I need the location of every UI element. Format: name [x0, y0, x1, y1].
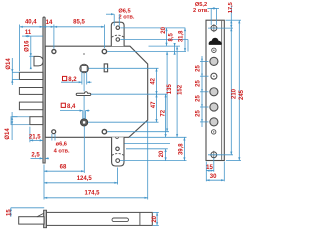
- svg-text:124,5: 124,5: [77, 176, 93, 182]
- svg-text:25: 25: [195, 80, 201, 87]
- svg-text:68: 68: [60, 165, 67, 171]
- bottom tab notch: [115, 137, 118, 138]
- case divider side view: [139, 212, 141, 225]
- 17.5 text leader: [230, 6, 232, 21]
- ext tab hole to 124.5: [117, 168, 119, 185]
- ext 8.2 right: [86, 72, 88, 85]
- leader O6.5 left: [113, 14, 115, 26]
- leader O5.2 right drop: [216, 8, 218, 25]
- top mounting tab: [111, 22, 124, 46]
- svg-text:2 отв.: 2 отв.: [119, 15, 135, 21]
- ext 21.5: [29, 127, 31, 143]
- square follower 8.2: [80, 64, 89, 73]
- dim line 2.5: [31, 157, 49, 159]
- svg-text:210: 210: [232, 88, 238, 99]
- dim line O14 top: [11, 58, 13, 85]
- tick O14 top a: [12, 71, 19, 73]
- lower follower 8.4: [80, 119, 87, 126]
- dim line 30: [206, 179, 224, 181]
- svg-text:Ø14: Ø14: [6, 58, 12, 70]
- dim line 15 side: [10, 208, 12, 217]
- chain dim line: [201, 56, 203, 127]
- top tab hole 2: [116, 38, 120, 42]
- faceplate top screw hole: [210, 24, 218, 32]
- ext follower to 68: [83, 126, 85, 172]
- stop pin rectangle: [104, 64, 107, 72]
- dim line 20 bottom: [165, 149, 167, 161]
- dim line 15: [206, 170, 214, 172]
- top tab hole 1: [116, 26, 120, 30]
- leader O5.2: [208, 7, 220, 9]
- dim line 8.4: [60, 110, 90, 112]
- dim line 124.5: [44, 182, 118, 184]
- svg-text:8,4: 8,4: [67, 104, 76, 110]
- handle slot side view: [112, 218, 129, 222]
- svg-text:47: 47: [151, 101, 157, 108]
- svg-text:Ø16: Ø16: [24, 40, 30, 52]
- lock body case: [45, 46, 148, 137]
- tick O16 top: [29, 55, 33, 57]
- ext strip right down: [223, 162, 225, 182]
- ext body right to 174.5: [147, 121, 149, 200]
- svg-text:85,5: 85,5: [73, 20, 85, 26]
- ext faceplate bottom: [226, 160, 241, 162]
- lock case side view: [46, 212, 152, 225]
- ext line case holes bottom: [107, 131, 169, 133]
- svg-text:4 отв.: 4 отв.: [54, 149, 70, 155]
- dim line 11 tail left: [22, 35, 24, 37]
- svg-text:174,5: 174,5: [84, 191, 100, 197]
- faceplate bottom screw hole: [210, 151, 218, 159]
- keyhole profile: [76, 92, 91, 96]
- ext line keyhole: [91, 93, 168, 95]
- faceplate inner edge line: [221, 21, 223, 160]
- ext faceplate hole top: [208, 27, 233, 29]
- ext 8.4 left: [82, 111, 84, 119]
- dim line 72: [165, 94, 167, 137]
- ext line case holes top: [107, 51, 186, 53]
- label 8.2 square: [63, 76, 78, 83]
- case hole bottom-left: [52, 130, 56, 134]
- deadbolt bar 4 extended part: [11, 117, 30, 125]
- ext line tab hole1: [120, 27, 185, 29]
- svg-text:152: 152: [177, 84, 183, 95]
- dim line 47: [155, 94, 157, 122]
- label 8.4 square: [61, 103, 76, 110]
- bolt hole 3: [210, 103, 218, 111]
- lever keyhole black: [209, 38, 221, 44]
- dim line 11 tail: [31, 35, 43, 37]
- svg-text:42: 42: [150, 77, 156, 84]
- ext line body bottom: [130, 136, 187, 138]
- dim line 14: [43, 26, 54, 28]
- svg-text:20: 20: [161, 26, 167, 33]
- bolt hole 4: [210, 118, 218, 126]
- svg-text:31,8: 31,8: [179, 30, 185, 42]
- case hole top-left: [52, 50, 56, 54]
- deadbolt bar 4: [30, 117, 43, 125]
- svg-text:21,5: 21,5: [29, 134, 41, 140]
- svg-text:8,5: 8,5: [168, 32, 174, 41]
- tick O14 top b: [12, 79, 19, 81]
- chain tick 1: [200, 75, 209, 77]
- ext line 40.4 left: [19, 25, 21, 72]
- dim line 39.8: [183, 137, 185, 160]
- ext line aux 143.5: [125, 143, 171, 145]
- deadbolt side view: [19, 213, 44, 224]
- dim line 135: [166, 52, 168, 132]
- ext 8.4 right: [84, 111, 86, 119]
- svg-text:25: 25: [195, 95, 201, 102]
- ext line 31.8 aux: [187, 40, 189, 52]
- dim line 21.5: [30, 139, 43, 141]
- ext strip hole down: [213, 158, 215, 172]
- svg-text:20: 20: [159, 150, 165, 157]
- dim line 152: [176, 46, 178, 137]
- ext O14 bottom up: [11, 112, 13, 117]
- svg-text:135: 135: [167, 84, 173, 95]
- svg-text:39,8: 39,8: [178, 143, 184, 155]
- svg-text:Ø14: Ø14: [5, 128, 11, 140]
- bottom mounting tab: [112, 137, 124, 166]
- dim line 42: [155, 68, 157, 94]
- dim line 20 top: [165, 28, 167, 46]
- auxiliary bolt D-shape: [34, 56, 43, 66]
- leader O6.5 arrow: [106, 13, 114, 15]
- ext 8.2 left: [81, 72, 83, 85]
- ext faceplate hole bottom: [208, 154, 233, 156]
- case hole bottom-right: [102, 130, 106, 134]
- small hole 1: [212, 48, 216, 52]
- dim line 174.5: [44, 197, 148, 199]
- dim line O16: [30, 36, 32, 69]
- ext strip left down: [205, 162, 207, 182]
- svg-text:11: 11: [25, 30, 32, 36]
- centerline follower-keyhole: [83, 73, 85, 91]
- svg-text:ø6,6: ø6,6: [56, 142, 67, 148]
- deadbolt bar 3: [19, 102, 43, 110]
- dim line 68: [44, 170, 84, 172]
- dim line 20 side: [156, 212, 158, 225]
- svg-text:25: 25: [195, 110, 201, 117]
- chain tick 0: [200, 60, 209, 62]
- dim line 210: [230, 28, 232, 155]
- ext line hole top-right: [103, 25, 105, 49]
- ext case top right: [153, 211, 159, 213]
- svg-text:30: 30: [210, 174, 217, 180]
- tick O14b top: [12, 116, 17, 118]
- bolt hole 1: [210, 57, 218, 65]
- ext faceplate top: [226, 19, 242, 21]
- dim line 85.5: [54, 26, 105, 28]
- svg-text:20: 20: [152, 215, 158, 222]
- deadbolt bar 1: [19, 72, 43, 79]
- bottom tab hole 1: [116, 147, 120, 151]
- faceplate front view: [206, 20, 224, 160]
- dim line 31.8: [184, 28, 186, 52]
- svg-text:2 отв.: 2 отв.: [193, 8, 209, 14]
- ext line body top: [149, 45, 181, 47]
- svg-text:15: 15: [7, 209, 13, 216]
- svg-text:245: 245: [239, 89, 245, 100]
- svg-text:17,5: 17,5: [228, 2, 234, 13]
- ext line hole top-left: [53, 25, 55, 49]
- svg-text:2,5: 2,5: [31, 152, 40, 158]
- case hole top-right: [102, 49, 106, 53]
- centerline keyhole-follower2: [83, 96, 85, 119]
- ext line tab hole2: [120, 39, 188, 41]
- faceplate side view: [44, 210, 47, 228]
- svg-text:40,4: 40,4: [25, 19, 37, 25]
- dim line O14 bottom: [11, 117, 13, 125]
- bottom tab dashed slot arc: [112, 154, 124, 156]
- leader O6.6 left: [51, 134, 53, 141]
- bolt hole 2: [210, 88, 218, 96]
- leader O5.2 left drop: [210, 8, 212, 25]
- svg-text:72: 72: [161, 109, 167, 116]
- svg-text:14: 14: [46, 20, 53, 26]
- dim line 245: [238, 20, 240, 160]
- dim line 40.4: [20, 26, 43, 28]
- faceplate edge strip: [43, 17, 45, 163]
- chain tick 3: [200, 106, 209, 108]
- ext O14 bottom down: [11, 125, 13, 140]
- ext line lower follower: [88, 121, 159, 123]
- deadbolt bar 2: [19, 88, 43, 95]
- rivet dot: [83, 53, 85, 55]
- dim line 17.5: [230, 20, 232, 28]
- ext line follower: [89, 67, 159, 69]
- ext line 15 side: [11, 207, 44, 209]
- chain tick 4: [200, 121, 209, 123]
- bottom tab hole 2: [116, 159, 120, 163]
- dim line 8.2: [61, 81, 92, 83]
- dim line 8.5: [174, 43, 176, 55]
- ring hole: [211, 73, 217, 79]
- ext bottom-left: [43, 165, 45, 200]
- ext tab2 hole2: [120, 160, 187, 162]
- ext case bottom right: [153, 224, 159, 226]
- small hole 2: [212, 130, 216, 134]
- svg-text:15: 15: [206, 165, 213, 171]
- leader O6.6 right: [54, 134, 56, 141]
- leader O6.5 right: [118, 14, 120, 26]
- dim line 11: [24, 35, 31, 37]
- chain tick 2: [200, 91, 209, 93]
- ext tab2 hole1: [126, 148, 168, 150]
- svg-text:25: 25: [195, 65, 201, 72]
- top tab dashed slot arc: [112, 35, 124, 37]
